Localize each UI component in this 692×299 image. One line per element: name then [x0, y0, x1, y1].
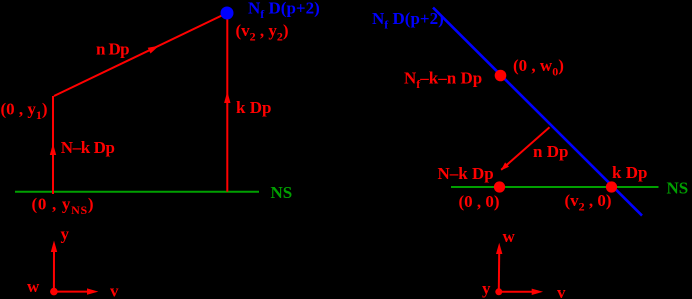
- svg-text:(0 , 0): (0 , 0): [459, 192, 500, 211]
- v-axis arrow (left): [54, 291, 88, 293]
- Nf D(p+2)-brane line (blue diagonal): [433, 8, 642, 216]
- svg-text:k Dp: k Dp: [236, 98, 271, 117]
- w-axis arrow (right): [498, 253, 500, 292]
- axes origin dot (left): [50, 288, 58, 296]
- y-axis arrow (left): [53, 251, 55, 292]
- k Dp dot (right): [606, 181, 617, 192]
- wire: n Dp segment (left diagonal): [54, 13, 227, 96]
- wire: k Dp segment (left vertical tall): [226, 15, 228, 192]
- svg-text:NS: NS: [667, 179, 689, 198]
- wire: n Dp segment (right): [501, 127, 549, 170]
- arrowhead on n Dp segment (right): [501, 162, 509, 170]
- arrowhead on n Dp segment: [148, 46, 159, 54]
- wire: N-k Dp segment (left vertical): [52, 96, 54, 194]
- svg-text:n Dp: n Dp: [533, 142, 568, 161]
- (0,w0) dot on blue line: [495, 70, 507, 82]
- svg-text:y: y: [482, 279, 491, 298]
- svg-text:N–k Dp: N–k Dp: [438, 164, 494, 183]
- D(p+2)-brane endpoint dot (blue): [221, 7, 234, 20]
- svg-text:y: y: [61, 225, 70, 244]
- NS5-brane line (left): [15, 191, 259, 193]
- arrowhead on N-k Dp segment: [50, 144, 56, 156]
- svg-text:k Dp: k Dp: [612, 163, 647, 182]
- svg-text:n Dp: n Dp: [96, 40, 129, 59]
- svg-text:N–k Dp: N–k Dp: [61, 138, 115, 157]
- axes origin dot (right): [495, 288, 502, 295]
- svg-text:v: v: [557, 283, 566, 299]
- NS5-brane line (right): [451, 186, 659, 188]
- v-axis arrow (right): [499, 291, 533, 293]
- svg-text:v: v: [110, 282, 119, 299]
- arrowhead on k Dp segment: [224, 92, 230, 104]
- svg-text:NS: NS: [271, 183, 293, 202]
- N-k Dp dot (right): [494, 181, 505, 192]
- svg-text:w: w: [503, 227, 516, 246]
- svg-text:w: w: [27, 277, 40, 296]
